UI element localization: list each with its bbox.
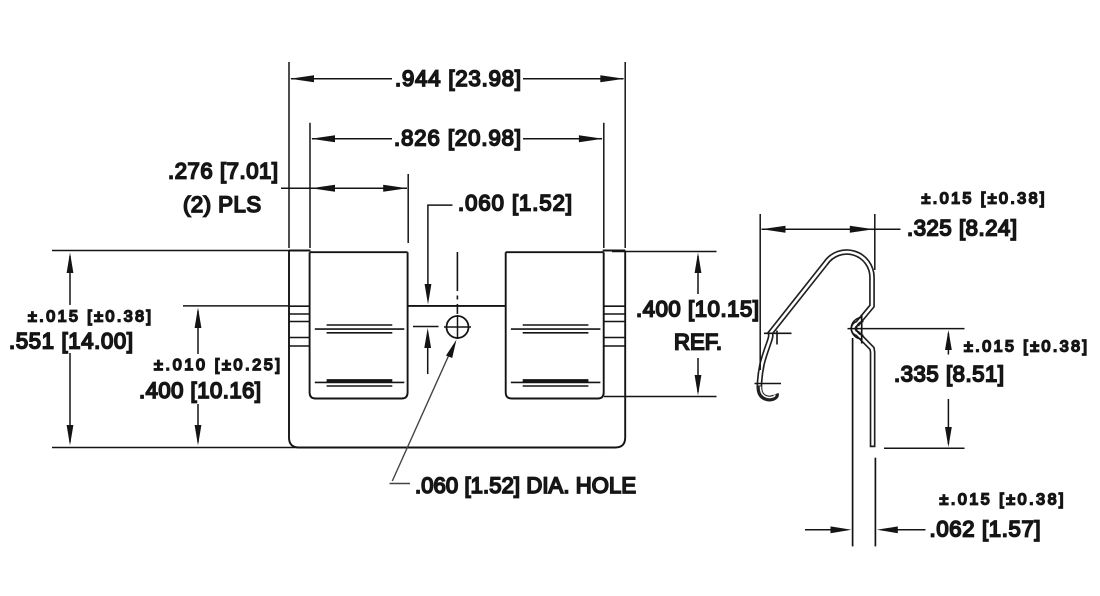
dimension .335 down arrow <box>947 399 949 444</box>
dimension .400 10.16 extension line <box>183 305 290 307</box>
dimension .276 right extension line <box>407 174 409 243</box>
svg-text:REF.: REF. <box>674 330 722 355</box>
dimension .944 extension lines <box>289 62 625 248</box>
dimension .551 top extension line <box>52 250 300 252</box>
side view bottom tick <box>755 383 782 385</box>
hole leader line <box>390 347 453 484</box>
svg-text:.400 [10.16]: .400 [10.16] <box>139 378 261 403</box>
hole leader arrowhead <box>446 340 457 359</box>
hole crosshair <box>444 326 471 328</box>
right prong spring lines <box>511 325 601 386</box>
svg-text:±.015 [±0.38]: ±.015 [±0.38] <box>922 191 1045 208</box>
dimension .335 top extension line <box>848 328 965 330</box>
svg-text:.400 [10.15]: .400 [10.15] <box>636 297 759 322</box>
side view hook profile (double line via white core) <box>759 252 872 447</box>
dimension .944 arrowheads <box>290 75 624 82</box>
svg-text:±.015 [±0.38]: ±.015 [±0.38] <box>964 339 1087 356</box>
dimension .826 extension lines <box>310 123 604 248</box>
dimension .400 10.16 down arrow <box>197 404 199 442</box>
dimension .060 top leader <box>428 205 453 284</box>
dimension .551 bottom extension line <box>52 447 300 449</box>
dimension .325 extension lines <box>760 214 875 370</box>
svg-text:.062 [1.57]: .062 [1.57] <box>930 517 1041 542</box>
side view dimple point arcs <box>851 318 863 340</box>
dimension .325 line <box>762 228 901 230</box>
left prong spring lines <box>315 325 405 386</box>
body top edge left margin <box>289 250 311 252</box>
dimension .400 REF extension lines <box>604 252 717 397</box>
side view rear vertical line at dimple <box>861 315 863 344</box>
dimension .060 top down arrowhead <box>425 284 432 305</box>
dimension .944 line <box>291 78 624 80</box>
right margin hatch rungs <box>604 306 626 346</box>
dimension .335 bottom extension line <box>884 447 965 449</box>
dimension .400 10.16 up arrow <box>197 311 199 354</box>
dimension .276 line with stub <box>281 187 407 189</box>
svg-text:.551 [14.00]: .551 [14.00] <box>9 329 133 354</box>
dimension .400 REF down arrow <box>697 358 699 392</box>
dimension .400 REF up arrow <box>697 256 699 294</box>
svg-text:±.015 [±0.38]: ±.015 [±0.38] <box>28 309 151 326</box>
svg-text:±.010 [±0.25]: ±.010 [±0.25] <box>154 357 280 374</box>
body top edge right margin <box>603 250 626 252</box>
dimension .060 up arrow below <box>427 332 429 374</box>
dimension .062 left arrow <box>805 529 835 531</box>
dimension .826 line <box>312 138 602 140</box>
body outline front view <box>289 251 625 448</box>
svg-text:.944 [23.98]: .944 [23.98] <box>395 66 521 91</box>
side view right leg lower single line <box>874 458 876 547</box>
left margin hatch rungs <box>289 306 310 346</box>
notch web line between prongs <box>408 305 506 307</box>
dimension .551 up arrow <box>69 256 71 305</box>
dimension .551 down arrow <box>69 353 71 442</box>
svg-text:.335 [8.51]: .335 [8.51] <box>894 362 1004 387</box>
svg-text:.276 [7.01]: .276 [7.01] <box>168 159 278 184</box>
svg-text:.325 [8.24]: .325 [8.24] <box>907 216 1017 241</box>
side view bend cross tick <box>764 332 792 334</box>
centerline above hole <box>456 252 458 314</box>
right prong outline <box>506 252 604 398</box>
left prong outline <box>310 252 408 398</box>
svg-text:(2) PLS: (2) PLS <box>183 192 261 217</box>
svg-text:.060 [1.52] DIA. HOLE: .060 [1.52] DIA. HOLE <box>415 473 636 498</box>
dimension .276 arrowheads <box>311 185 407 192</box>
dimension .325 arrowheads <box>762 226 874 233</box>
dimension .335 up arrow <box>947 333 949 355</box>
center hole <box>447 316 469 338</box>
svg-text:.826 [20.98]: .826 [20.98] <box>394 126 521 151</box>
svg-text:.060 [1.52]: .060 [1.52] <box>458 191 572 216</box>
dimension .062 right arrow <box>893 529 926 531</box>
side view left leg line <box>852 338 854 546</box>
svg-text:±.015 [±0.38]: ±.015 [±0.38] <box>940 492 1064 509</box>
dimension .826 arrowheads <box>311 135 603 142</box>
hole center tick <box>413 326 439 328</box>
